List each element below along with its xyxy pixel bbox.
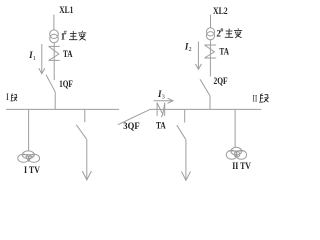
feeder breaker blade on bus I — [76, 125, 86, 139]
svg-text:#: # — [220, 28, 223, 34]
voltage transformer I TV — [18, 151, 40, 162]
circuit breaker 2QF blade — [200, 79, 210, 95]
svg-text:1: 1 — [33, 56, 36, 62]
feeder line with arrow (bus I outgoing) — [82, 139, 91, 180]
svg-text:1QF: 1QF — [59, 79, 73, 89]
circuit breaker 1QF blade — [46, 75, 55, 92]
label 主变 (1# main transformer) — [69, 31, 86, 41]
wire bus I to I TV — [28, 109, 30, 150]
voltage transformer II TV — [226, 147, 246, 159]
wire T2 to 2QF — [209, 40, 211, 77]
svg-text:2QF: 2QF — [214, 76, 228, 86]
tie line and bus II — [150, 108, 261, 110]
current transformer TA1 — [49, 46, 60, 60]
bus tie breaker 3QF blade — [118, 109, 150, 124]
svg-text:3: 3 — [162, 95, 165, 101]
wire XL2 lead — [210, 15, 212, 28]
wire bus II to feeder breaker — [184, 109, 186, 122]
current transformer TA2 — [205, 45, 217, 58]
transformer T1 (1# main transformer) — [50, 30, 59, 43]
transformer T2 (2# main transformer) — [206, 28, 214, 40]
bus I — [6, 108, 119, 110]
feeder breaker blade on bus II — [177, 125, 186, 139]
current arrow I1 — [39, 44, 45, 74]
current transformer TA3 (bus tie) — [157, 103, 165, 118]
svg-text:TA: TA — [156, 121, 166, 131]
wire bus I to feeder breaker — [84, 109, 86, 122]
svg-text:#: # — [64, 30, 67, 36]
wire T1 to 1QF — [53, 43, 55, 80]
current arrow I3 — [154, 98, 173, 103]
feeder line with arrow (bus II outgoing) — [182, 139, 191, 180]
svg-text:I TV: I TV — [24, 165, 41, 176]
svg-text:II TV: II TV — [232, 160, 251, 171]
svg-text:I: I — [6, 92, 9, 102]
current arrow I2 — [195, 42, 201, 70]
wire bus II to II TV — [234, 109, 236, 147]
svg-text:2: 2 — [189, 47, 192, 53]
svg-text:TA: TA — [219, 47, 229, 57]
svg-text:II: II — [253, 94, 258, 104]
wire 1QF to bus I — [54, 92, 56, 110]
svg-text:TA: TA — [63, 50, 73, 60]
wire 2QF to bus II — [209, 96, 211, 110]
svg-text:XL2: XL2 — [213, 6, 228, 16]
svg-text:3QF: 3QF — [123, 121, 139, 131]
label 主变 (2# main transformer) — [225, 28, 242, 38]
svg-text:XL1: XL1 — [59, 5, 73, 15]
wire XL1 lead — [53, 15, 55, 30]
